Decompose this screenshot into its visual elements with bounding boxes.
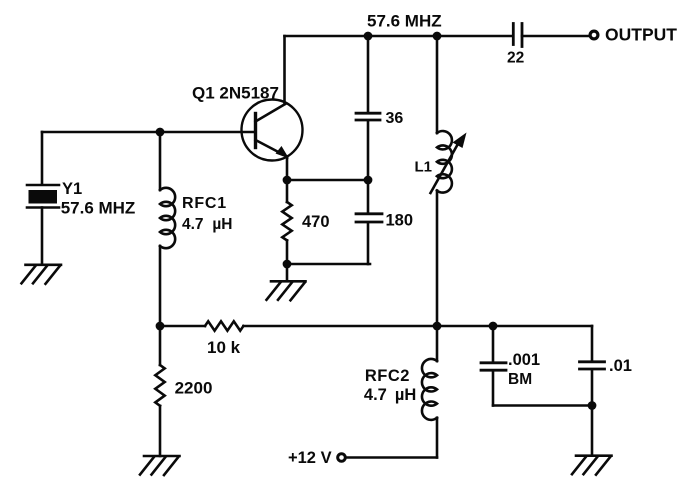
wire lower rail right of 10k [243, 325, 592, 328]
ground below .01 [572, 456, 612, 475]
capacitor 22 [513, 24, 522, 47]
svg-text:L1: L1 [415, 158, 433, 175]
svg-text:57.6 MHZ: 57.6 MHZ [61, 199, 136, 218]
wire crystal bottom lead [41, 208, 44, 265]
ground below 2200 [140, 456, 180, 475]
capacitor C 36 [356, 36, 380, 180]
ground below Y1 [22, 265, 62, 284]
node emitter dot [283, 176, 292, 185]
ground below 470 [267, 281, 306, 300]
crystal Y1 [27, 185, 59, 208]
svg-text:57.6 MHZ: 57.6 MHZ [367, 12, 442, 31]
svg-text:4.7 µH: 4.7 µH [182, 216, 232, 233]
wire 22 to output [522, 35, 589, 38]
resistor 470 [282, 180, 291, 264]
node 36/180 dot [364, 176, 373, 185]
svg-text:36: 36 [386, 110, 404, 127]
svg-text:180: 180 [386, 212, 414, 230]
wire to ground from 470 [286, 264, 289, 281]
svg-text:RFC2: RFC2 [365, 367, 410, 385]
capacitor .01 [580, 326, 605, 406]
node +12V terminal [338, 454, 346, 462]
wire emitter to cap node [287, 179, 368, 182]
resistor 10k [205, 321, 243, 330]
svg-text:+12 V: +12 V [288, 449, 332, 467]
wire .01 node to ground [591, 406, 594, 456]
node top rail dot at L1 branch [433, 32, 442, 41]
wire top rail [285, 35, 512, 38]
node top rail dot at 36pF branch [364, 32, 373, 41]
node bottom dot [588, 401, 597, 410]
node 470 bottom dot [283, 260, 292, 269]
wire bottom of 470 to 180 [287, 263, 370, 266]
wire lower rail to 10k [160, 325, 205, 328]
svg-text:2200: 2200 [175, 379, 213, 398]
wire collector up [283, 36, 286, 104]
wire RFC2 to +12V [346, 456, 437, 459]
wire crystal top lead [41, 132, 44, 184]
svg-text:Q1 2N5187: Q1 2N5187 [192, 83, 279, 102]
inductor RFC2 [422, 326, 437, 458]
svg-text:4.7 µH: 4.7 µH [364, 386, 416, 404]
wire base rail from crystal to transistor base [42, 131, 255, 134]
node OUTPUT terminal [590, 31, 598, 39]
resistor 2200 [155, 326, 164, 456]
transistor Q1 [242, 100, 303, 161]
svg-text:10 k: 10 k [207, 338, 241, 357]
inductor RFC1 [160, 132, 175, 326]
svg-text:470: 470 [302, 213, 330, 231]
node base junction dot [156, 128, 165, 137]
svg-text:.001: .001 [508, 351, 540, 369]
svg-text:Y1: Y1 [62, 180, 82, 198]
node lower rail dot at RFC2 [433, 322, 442, 331]
capacitor C 180 [356, 180, 382, 264]
inductor L1 [437, 36, 452, 326]
svg-text:BM: BM [508, 371, 532, 388]
svg-text:RFC1: RFC1 [182, 195, 227, 212]
svg-text:22: 22 [507, 50, 524, 67]
wire .001 bottom to .01 bottom [493, 404, 592, 407]
svg-text:.01: .01 [609, 357, 632, 375]
wire emitter down [286, 157, 289, 180]
svg-text:OUTPUT: OUTPUT [605, 24, 677, 44]
capacitor .001 [481, 326, 506, 406]
node lower rail dot at .001 [489, 322, 498, 331]
L1 arrow [431, 133, 467, 194]
node lower rail left dot [156, 322, 165, 331]
